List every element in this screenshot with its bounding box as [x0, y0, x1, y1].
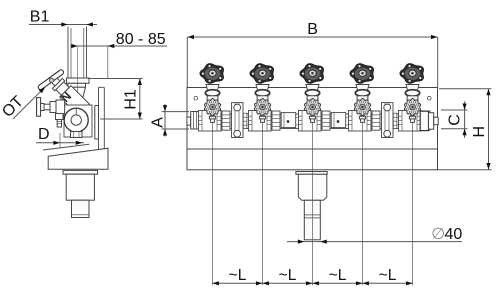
dimension D	[36, 142, 84, 144]
panel hole left	[194, 96, 198, 100]
union nut right of V3	[322, 111, 330, 130]
valve body V2	[249, 111, 272, 132]
dimension H	[488, 89, 490, 170]
svg-text:~L: ~L	[329, 267, 347, 284]
outlet pipe side	[72, 200, 90, 217]
outlet block side	[66, 174, 94, 200]
purge valve stem	[41, 104, 44, 111]
clamp side profile	[95, 106, 99, 140]
valve body V3	[299, 111, 322, 132]
dimension C	[464, 101, 466, 138]
dimension B	[188, 36, 438, 38]
panel hole right	[427, 96, 431, 100]
stem below front wheel V3	[311, 115, 315, 122]
valve body V1	[199, 111, 222, 132]
svg-text:D: D	[38, 126, 50, 143]
stem below front wheel V4	[361, 115, 365, 122]
clamp under boss	[71, 132, 83, 138]
valve V4 bonnet	[356, 85, 369, 91]
backplate panel	[187, 88, 438, 170]
dimension OT leader	[13, 87, 45, 119]
coupling block at x=287.5	[281, 113, 296, 128]
handwheel W4	[350, 64, 374, 84]
main block side view	[64, 105, 92, 137]
front wheel small V2	[254, 99, 270, 116]
front wheel small V3	[304, 99, 320, 116]
dimension A	[164, 104, 166, 137]
svg-text:H1: H1	[122, 89, 139, 110]
svg-text:80 - 85: 80 - 85	[116, 31, 166, 48]
pipe clamp bracket at x=237.5	[232, 103, 244, 138]
dimension B1	[29, 24, 97, 26]
union nut right of V2	[272, 111, 280, 130]
outlet pipe front	[304, 200, 320, 240]
angle valve 45deg assembly	[37, 66, 93, 122]
front wheel small V4	[354, 99, 370, 116]
valve V2 bonnet	[256, 85, 269, 91]
valve V4 neck	[357, 96, 368, 100]
outlet block front	[298, 174, 327, 200]
svg-text:40: 40	[445, 226, 463, 243]
svg-text:∅: ∅	[431, 226, 445, 243]
end plug stub left	[187, 117, 191, 125]
manifold pipe	[199, 114, 419, 129]
handwheel W2	[250, 64, 274, 84]
outlet flange side	[63, 170, 98, 174]
valve V1 bonnet	[206, 85, 219, 91]
end union hex right	[420, 111, 428, 130]
body end ridges V5	[399, 115, 403, 117]
handwheel W1	[200, 64, 224, 84]
shelf housing side view	[48, 148, 108, 169]
riser centerline	[76, 47, 78, 108]
valve V1 collar	[205, 90, 219, 97]
stem below front wheel V5	[411, 115, 415, 122]
dimension H1	[139, 79, 141, 120]
valve V5 bonnet	[406, 85, 419, 91]
valve V2 collar	[255, 90, 269, 97]
body end ridges V1	[199, 115, 203, 117]
riser pipe side view	[67, 27, 69, 79]
coupling block at x=337.5	[331, 113, 346, 128]
extension lines to ~L	[211, 122, 213, 285]
handwheel W5	[400, 64, 424, 84]
riser coupling	[67, 78, 90, 83]
valve V2 neck	[257, 96, 268, 100]
svg-text:C: C	[447, 114, 464, 126]
front wheel small V1	[204, 99, 220, 116]
serrated hex right of bracket 237.5	[243, 113, 247, 128]
dimension 80-85	[71, 45, 168, 47]
end plug hex left	[191, 112, 200, 130]
purge valve handwheel bar	[37, 98, 41, 117]
front wheel small V5	[404, 99, 420, 116]
panel bend line	[187, 148, 438, 150]
valve V5 collar	[405, 90, 419, 97]
stem below front wheel V2	[261, 115, 265, 122]
valve V3 neck	[307, 96, 318, 100]
handwheel W3	[300, 64, 324, 84]
valve V4 collar	[355, 90, 369, 97]
svg-text:OT: OT	[0, 93, 27, 121]
wall plate edge-on	[99, 86, 105, 88]
valve V1 neck	[207, 96, 218, 100]
svg-text:B1: B1	[30, 8, 50, 25]
body end ridges V2	[249, 115, 253, 117]
valve V5 neck	[407, 96, 418, 100]
pipe clamp bracket at x=387.5	[382, 103, 394, 138]
dimension chain ~L	[212, 282, 412, 284]
valve V3 bonnet	[306, 85, 319, 91]
serrated hex right of bracket 387.5	[393, 113, 397, 128]
svg-text:~L: ~L	[379, 267, 397, 284]
outlet flange front	[296, 172, 327, 175]
dimension dia 40	[287, 241, 462, 243]
drain fitting	[56, 114, 64, 120]
svg-text:B: B	[307, 21, 318, 38]
svg-text:~L: ~L	[229, 267, 247, 284]
svg-text:H: H	[471, 126, 488, 138]
union nut right of V5	[422, 111, 430, 130]
end block right	[429, 113, 434, 130]
union nut right of V4	[372, 111, 380, 130]
union nut right of V1	[222, 111, 230, 130]
pipe boss circle	[64, 108, 88, 132]
valve body V4	[349, 111, 372, 132]
riser lower section	[68, 83, 86, 87]
riser funnel	[68, 87, 86, 101]
valve body V5	[399, 111, 422, 132]
body end ridges V3	[299, 115, 303, 117]
svg-text:~L: ~L	[279, 267, 297, 284]
body end ridges V4	[349, 115, 353, 117]
valve V3 collar	[305, 90, 319, 97]
end stub right	[434, 117, 439, 125]
svg-text:A: A	[150, 117, 167, 128]
stem below front wheel V1	[211, 115, 215, 122]
